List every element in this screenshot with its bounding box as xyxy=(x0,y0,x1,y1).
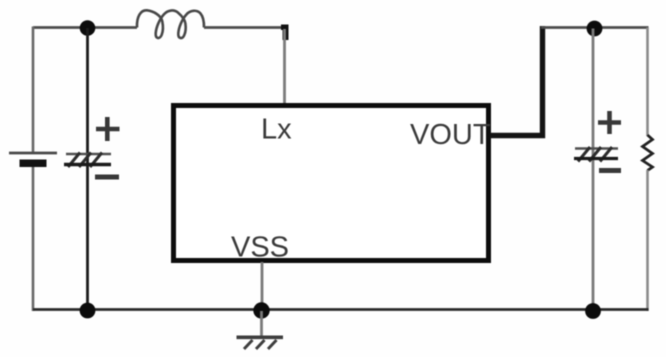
junction node bottom-left xyxy=(80,303,96,319)
junction node top-left xyxy=(80,20,96,36)
ground symbol xyxy=(237,337,284,349)
battery BT1 positive plate xyxy=(9,152,57,155)
wire output capacitor branch xyxy=(592,29,595,312)
IC U1 body xyxy=(174,106,489,261)
junction node top-right xyxy=(587,21,603,37)
capacitor CL hatched plate xyxy=(578,147,612,162)
wire top-left horizontal (VIN net) xyxy=(33,26,137,29)
svg-text:VOUT: VOUT xyxy=(410,119,491,151)
capacitor CIN top plate xyxy=(66,153,111,156)
wire left vertical lower (battery -) xyxy=(32,167,35,311)
capacitor CL bottom plate xyxy=(574,157,618,160)
capacitor CIN bottom plate xyxy=(64,163,111,166)
corner junction blob at LX wire xyxy=(281,25,289,41)
wire inductor to LX corner xyxy=(204,26,286,29)
wire top-right horizontal (VOUT net) xyxy=(541,26,649,29)
wire bottom horizontal (ground net) xyxy=(33,308,649,311)
wire input capacitor branch xyxy=(86,28,89,310)
ground stub wire xyxy=(260,311,263,336)
capacitor CL top plate xyxy=(575,147,618,150)
svg-text:VSS: VSS xyxy=(231,232,289,264)
wire left vertical upper (battery +) xyxy=(32,27,35,153)
plus label input capacitor xyxy=(96,117,120,141)
battery BT1 negative plate xyxy=(20,160,47,168)
svg-text:Lx: Lx xyxy=(261,114,292,146)
wire VOUT thick output xyxy=(490,26,543,136)
junction node bottom-right xyxy=(585,303,601,319)
wire LX vertical into IC xyxy=(283,29,286,104)
plus label output capacitor xyxy=(598,111,621,134)
wire load resistor lower xyxy=(646,170,649,311)
wire load resistor upper xyxy=(646,28,649,137)
minus label input capacitor xyxy=(95,175,119,180)
resistor RL zigzag xyxy=(643,135,653,171)
inductor L1 xyxy=(137,10,204,38)
wire VSS vertical xyxy=(261,262,264,310)
capacitor CIN hatched plate xyxy=(68,153,102,168)
minus label output capacitor xyxy=(599,168,621,173)
junction node bottom-center xyxy=(253,302,269,318)
